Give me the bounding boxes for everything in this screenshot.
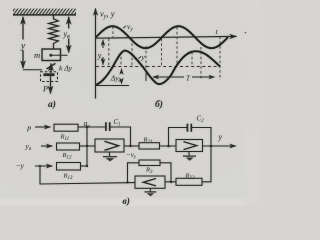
svg-text:vy, y: vy, y (100, 9, 115, 21)
lower curve y (96, 51, 220, 85)
svg-text:y: y (141, 53, 146, 62)
wire R22 to amp3 (165, 181, 176, 183)
ink halo (scan softness underlay) (10, 7, 237, 207)
input p arrow (35, 126, 51, 128)
upper curve v_y (96, 26, 228, 48)
ceiling hatching (10, 7, 80, 15)
speck after t-axis arrow (245, 32, 247, 34)
op-amp U1 symbol (105, 141, 119, 150)
ceiling line (13, 14, 76, 16)
capacitor C1 (106, 122, 110, 131)
C2 right leg (192, 128, 212, 147)
svg-text:а): а) (48, 99, 56, 110)
damper piston plate (44, 73, 55, 76)
right feedback leg down to R22 (202, 146, 211, 182)
T dimension (146, 73, 215, 81)
force P arrow (50, 76, 52, 93)
reference line at bottom of y dimension (23, 69, 42, 71)
ground U3 triangle (147, 193, 154, 196)
ground U3 (149, 188, 151, 191)
resistor R3 (139, 160, 160, 166)
dashed vertical lines (109, 27, 220, 81)
ground U1 triangle (106, 158, 115, 161)
ground U1 (109, 152, 111, 156)
wire R11 to node (78, 126, 87, 128)
ground U2 triangle (186, 158, 194, 161)
wire R13 to bus (81, 165, 88, 167)
output y arrow (203, 145, 237, 147)
op-amp U1 box (95, 139, 124, 152)
bottom start line (96, 85, 129, 87)
resistor R11 (54, 124, 78, 131)
op-amp U3 symbol (143, 179, 156, 186)
svg-text:б): б) (155, 99, 163, 110)
resistor R21 (139, 143, 160, 149)
dashed mean line (96, 66, 220, 68)
svg-text:y: y (20, 42, 26, 52)
paper background (0, 0, 262, 206)
resistor R13 (57, 163, 81, 171)
main drawing (10, 7, 246, 207)
svg-text:k Δy: k Δy (59, 64, 73, 73)
spring (49, 15, 59, 49)
resistor R22 (176, 178, 202, 185)
node bus vertical (86, 127, 88, 166)
junction dots (39, 126, 212, 184)
leader and label y (curve) (139, 57, 142, 59)
mass box m (42, 49, 61, 61)
t axis (96, 36, 237, 38)
dimension y_b (right, double arrow) (68, 17, 70, 29)
op-amp U3 box (135, 176, 165, 188)
svg-text:в): в) (123, 196, 130, 206)
R3 left leg (128, 163, 140, 183)
svg-text:y: y (218, 133, 223, 142)
vertical axis (95, 9, 97, 99)
resistor R12 (57, 143, 80, 150)
feedback wire from bottom amp to -y line (40, 166, 135, 184)
wire C1 to down leg (111, 127, 131, 146)
capacitor C2 (187, 124, 191, 132)
wire node to C1 (87, 126, 105, 128)
k*dy arrow under mass (50, 64, 52, 74)
svg-text:−y: −y (16, 161, 25, 170)
damper dashed box (41, 72, 58, 82)
op-amp U2 symbol (184, 142, 197, 150)
C2 feedback left leg (169, 128, 188, 147)
R3 right leg (160, 163, 171, 182)
wire amp1 output (124, 145, 139, 147)
svg-text:P: P (42, 85, 48, 94)
dimension y_b on plot (102, 40, 104, 65)
dot and line inside mass (49, 54, 52, 57)
svg-text:p: p (26, 123, 31, 132)
svg-text:m: m (34, 50, 40, 60)
wire R21 to amp2 (160, 145, 177, 147)
input -y arrow (35, 165, 53, 167)
dimension y (left, double arrow) (22, 17, 24, 40)
dimension dy_b on plot (121, 69, 123, 84)
leader and label v_y (curve) (123, 26, 126, 28)
wire R12 to amp1 (80, 145, 96, 147)
ground U2 (188, 152, 190, 156)
op-amp U2 box (176, 140, 203, 152)
input y_b arrow (41, 145, 53, 147)
